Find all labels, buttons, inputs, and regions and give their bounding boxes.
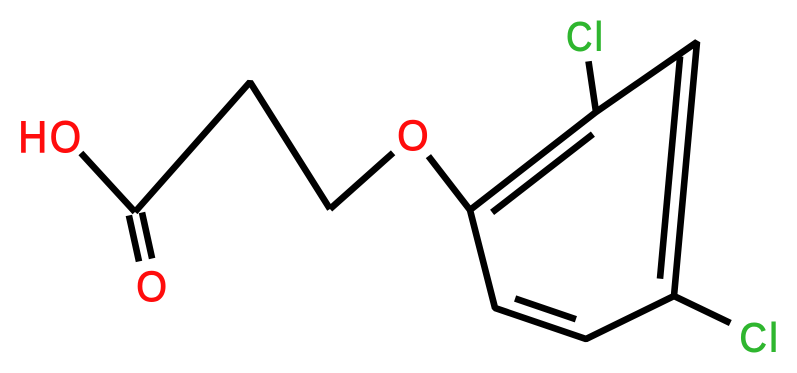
bond O ether-ring C1 [428, 156, 470, 210]
chain bonds C1-C2-C3 (propanoic zigzag) [135, 82, 330, 212]
bond HO-C1 (hydroxyl to carboxyl carbon) [81, 153, 135, 212]
aromatic inner double line C3-C4 [660, 57, 680, 279]
bond ring C4-Cl bottom [674, 296, 730, 323]
bond C3-O ether left [330, 153, 393, 209]
aromatic inner double line C5-C6 [515, 299, 576, 320]
svg-text:HO: HO [18, 112, 83, 161]
bond Cl top-ring C2 [589, 61, 597, 112]
svg-text:O: O [136, 262, 167, 310]
svg-text:Cl: Cl [740, 315, 781, 361]
benzene ring (irregular hexagon) [470, 42, 697, 339]
double bond C1=O carbonyl left line [129, 215, 139, 261]
aromatic inner double line C1-C2 [492, 134, 593, 212]
svg-text:O: O [397, 112, 428, 159]
double bond C1=O carbonyl right line [142, 213, 152, 259]
svg-text:Cl: Cl [566, 15, 605, 61]
